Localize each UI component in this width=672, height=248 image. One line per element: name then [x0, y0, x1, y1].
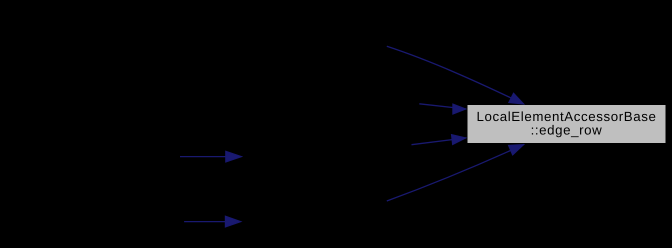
- arrowhead A: [509, 93, 524, 104]
- wire arrow A (top curve into node top edge): [387, 46, 524, 104]
- arrowhead E: [226, 151, 242, 162]
- arrowhead B: [453, 104, 467, 115]
- wire arrow F (left column lower horizontal): [184, 221, 227, 223]
- wire arrow D (bottom curve into node bottom edge): [387, 144, 524, 201]
- node LocalElementAccessorBase::edge_row: [467, 105, 666, 144]
- arrowhead D: [508, 144, 524, 155]
- wire arrow B (short, into node left edge upper): [419, 104, 466, 109]
- arrowhead C: [451, 134, 466, 144]
- svg-text:::edge_row: ::edge_row: [531, 122, 603, 137]
- wire arrow C (short, into node left edge lower): [412, 138, 467, 145]
- arrowhead F: [225, 216, 241, 227]
- wire arrow E (left column upper horizontal): [180, 156, 228, 158]
